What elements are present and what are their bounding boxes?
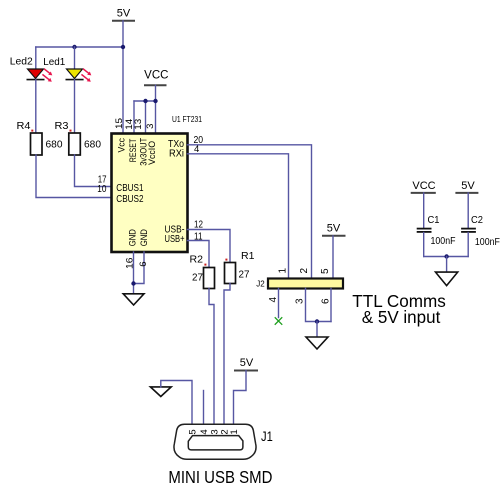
wire J2 pin 4 stub: [278, 289, 280, 318]
resistor R1: [225, 250, 255, 284]
ground below J2: [306, 337, 328, 349]
svg-text:6: 6: [138, 262, 149, 267]
capacitor C1: [418, 193, 456, 257]
power 5V above J2: [323, 223, 345, 236]
svg-text:16: 16: [124, 258, 135, 270]
svg-text:RXi: RXi: [169, 149, 184, 160]
svg-text:J1: J1: [261, 428, 273, 444]
node junction J2 ground: [315, 319, 319, 323]
svg-text:VCC: VCC: [412, 180, 435, 192]
LED Led2: [10, 56, 53, 82]
svg-text:2: 2: [299, 268, 310, 274]
svg-text:5: 5: [320, 268, 331, 274]
ground below caps: [436, 272, 458, 286]
svg-text:C1: C1: [428, 214, 440, 226]
svg-text:CBUS1: CBUS1: [116, 182, 143, 194]
svg-text:R3: R3: [55, 120, 69, 132]
wire 5V rail down to U1 pin 15: [122, 21, 124, 134]
power 5V above C2: [456, 180, 477, 193]
wire VCC stub to U1 pin 3: [155, 85, 157, 133]
svg-text:3: 3: [145, 124, 156, 129]
svg-text:VCC: VCC: [144, 69, 168, 81]
svg-text:5: 5: [187, 429, 198, 434]
power VCC above C1: [412, 180, 436, 193]
capacitor C2: [462, 193, 500, 257]
resistor R4: [17, 120, 63, 155]
node junction caps ground: [444, 254, 448, 258]
node junction GND: [131, 281, 135, 285]
power 5V top: [113, 7, 134, 21]
wire Led1 anode: [74, 47, 76, 69]
svg-text:100nF: 100nF: [475, 236, 500, 248]
svg-text:R1: R1: [241, 250, 255, 262]
resistor R2: [190, 254, 215, 289]
wire R3 to CBUS1 pin 17: [75, 155, 112, 187]
svg-text:680: 680: [46, 139, 63, 151]
ground left of J1: [150, 387, 171, 397]
svg-text:1: 1: [229, 429, 240, 434]
wire caps ground stub: [446, 257, 448, 273]
svg-text:R2: R2: [190, 254, 204, 266]
wire TXo pin20 to J2 pin 2: [188, 145, 312, 279]
connector J2: [256, 279, 343, 289]
wire U1 pin 14: [133, 101, 135, 134]
wire Led2 anode: [35, 47, 37, 69]
wire 5V to J1 pin 1: [234, 371, 247, 425]
resistor R3: [55, 120, 102, 155]
svg-text:5V: 5V: [461, 180, 475, 192]
svg-text:6: 6: [321, 298, 332, 304]
wire RXi pin4 to J2 pin 1: [188, 154, 289, 279]
svg-text:Led1: Led1: [43, 56, 65, 68]
wire USB+ pin11 to R2: [188, 241, 210, 268]
svg-text:5V: 5V: [240, 357, 254, 369]
svg-text:VccIO: VccIO: [147, 141, 157, 165]
svg-text:1: 1: [277, 268, 288, 274]
no-connect X on J2 pin 4: [275, 318, 282, 325]
wire 5V to J2 pin 5: [332, 236, 334, 279]
wire R4 to CBUS2 pin 10: [36, 155, 112, 198]
wire R1 to J1 pin 2: [224, 284, 230, 425]
wire J2 pin 6: [330, 289, 332, 322]
svg-text:GND: GND: [128, 229, 138, 247]
wire Led1 cathode to R3: [74, 80, 76, 133]
node junction Led1 anode: [72, 45, 76, 49]
svg-text:J2: J2: [256, 279, 265, 288]
LED Led1: [43, 56, 91, 82]
power 5V above J1: [235, 357, 257, 371]
svg-text:RESET: RESET: [128, 138, 138, 162]
wire U1 pin 13: [145, 101, 147, 134]
wire ground to J1 pin 5: [161, 381, 192, 425]
svg-text:CBUS2: CBUS2: [116, 193, 143, 205]
wire R2 to J1 pin 3: [209, 289, 214, 425]
svg-text:680: 680: [84, 139, 101, 151]
svg-text:4: 4: [199, 429, 210, 434]
wire J2 ground stub: [316, 322, 318, 338]
wire VCC branch horizontal: [134, 100, 156, 102]
node junction pin3: [153, 99, 157, 103]
svg-text:Vcc: Vcc: [117, 138, 127, 153]
wire U1 GND pin16: [133, 252, 135, 294]
svg-text:R4: R4: [17, 120, 31, 132]
wire J2 pin 3: [306, 289, 332, 322]
svg-text:Led2: Led2: [10, 56, 33, 68]
svg-text:13: 13: [133, 119, 144, 130]
svg-text:U1 FT231: U1 FT231: [172, 114, 202, 124]
svg-text:27: 27: [192, 272, 203, 284]
svg-text:MINI USB SMD: MINI USB SMD: [168, 467, 272, 487]
wire J1 pin 4 stub: [203, 391, 205, 425]
wire LED top rail: [36, 46, 123, 48]
svg-text:4: 4: [268, 297, 279, 303]
svg-text:3: 3: [295, 298, 306, 304]
node junction pin13: [143, 99, 147, 103]
power VCC above U1: [144, 69, 168, 85]
svg-text:12: 12: [194, 218, 203, 230]
wire USB- pin12 to R1: [188, 230, 231, 263]
wire capacitor commons: [424, 256, 469, 258]
op-amp U1 FT231 body: [112, 114, 203, 252]
node junction 5V rail: [121, 45, 125, 49]
svg-text:& 5V input: & 5V input: [362, 307, 441, 327]
svg-text:C2: C2: [471, 214, 483, 226]
ground below U1: [123, 294, 144, 305]
svg-text:GND: GND: [139, 229, 149, 247]
wire Led2 cathode to R4: [35, 80, 37, 133]
svg-text:USB+: USB+: [165, 234, 185, 245]
svg-text:5V: 5V: [117, 7, 131, 19]
connector J1 MINI USB body: [174, 424, 273, 459]
svg-text:5V: 5V: [327, 223, 341, 235]
svg-text:27: 27: [239, 269, 250, 281]
svg-text:100nF: 100nF: [431, 235, 456, 247]
wire U1 GND pin6: [134, 252, 145, 284]
svg-text:10: 10: [97, 183, 106, 195]
